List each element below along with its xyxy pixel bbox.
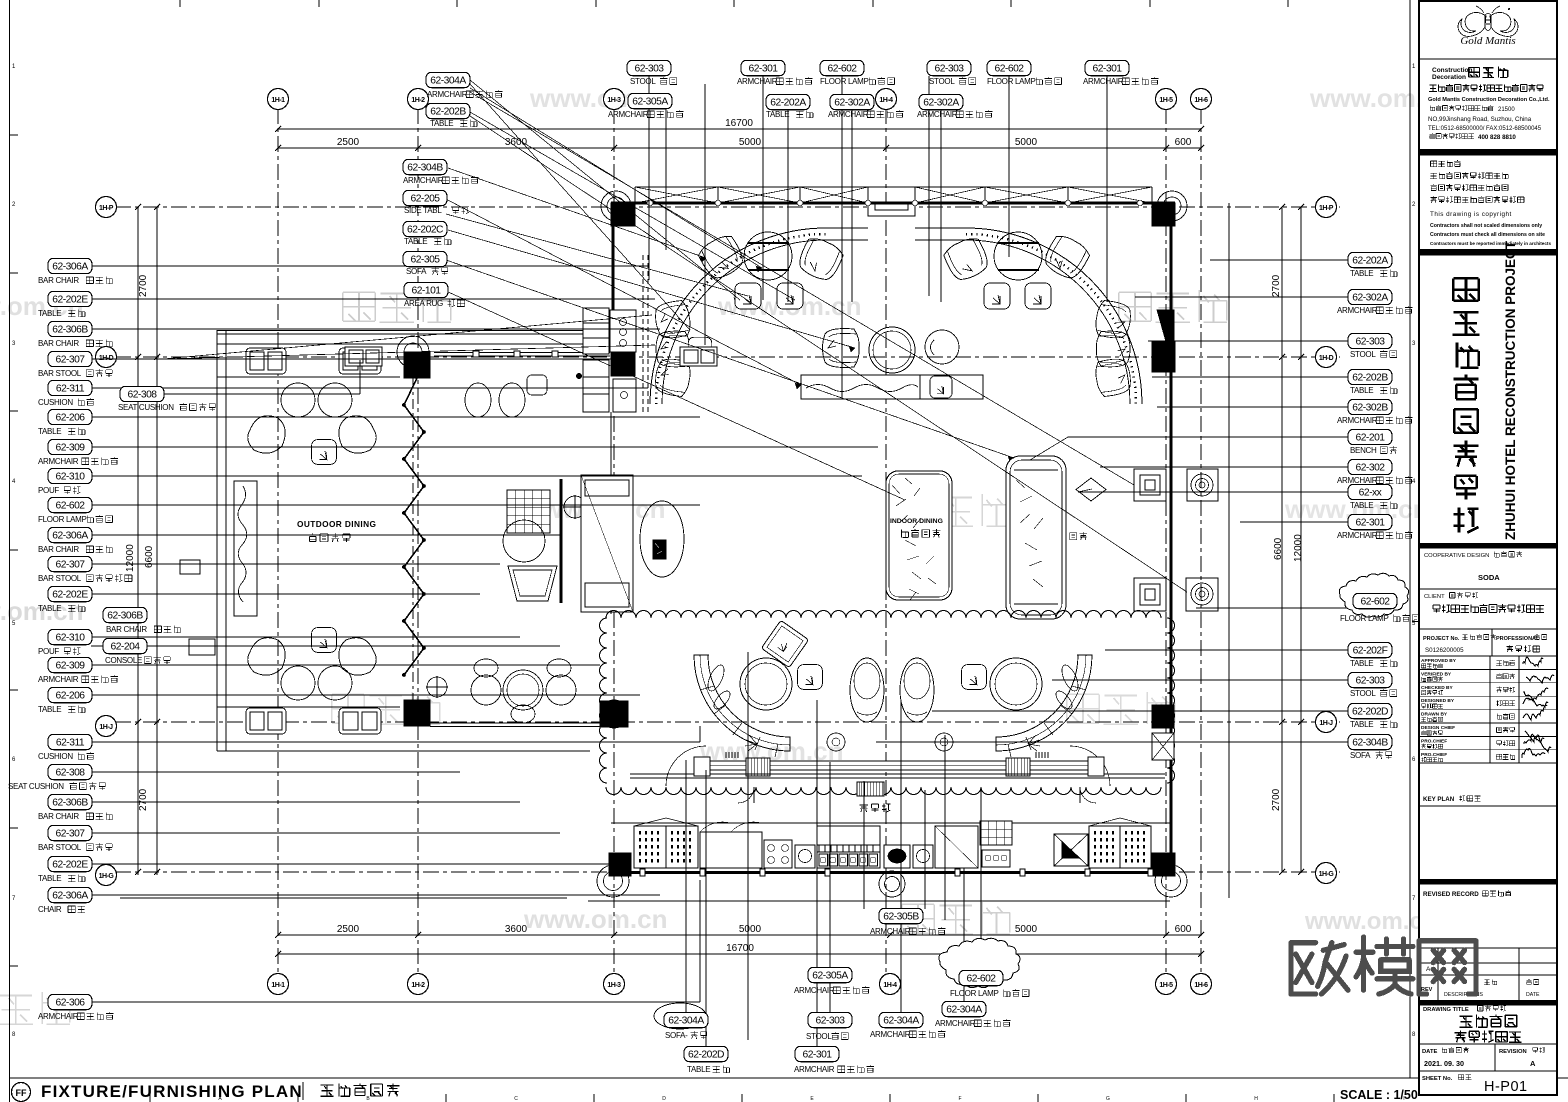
label 62-303 top b	[927, 60, 971, 75]
cloud border left	[600, 618, 608, 783]
svg-text:62-202E: 62-202E	[52, 295, 88, 306]
svg-text:62-602: 62-602	[994, 64, 1024, 75]
svg-text:62-301: 62-301	[802, 1050, 832, 1061]
cloud border bottom	[606, 787, 1161, 795]
svg-text:APPROVED BY: APPROVED BY	[1421, 658, 1457, 664]
outdoor sofa bottom-right	[339, 708, 381, 734]
curved sofa left	[694, 655, 790, 751]
cloud side table right	[935, 733, 953, 751]
svg-text:62-602: 62-602	[55, 501, 85, 512]
leader verticals from bottom labels	[829, 762, 831, 968]
svg-text:21500: 21500	[1498, 107, 1515, 113]
checker block	[980, 821, 1012, 845]
svg-text:DATE: DATE	[1422, 1049, 1437, 1055]
svg-text:FF: FF	[16, 1088, 27, 1098]
svg-text:62-304B: 62-304B	[1352, 738, 1388, 749]
svg-text:PROFESSIONAL: PROFESSIONAL	[1496, 636, 1540, 642]
svg-text:62-307: 62-307	[55, 560, 85, 571]
label 62-301 top a	[741, 60, 785, 75]
svg-text:ARMCHAIR: ARMCHAIR	[794, 986, 835, 995]
plan title chinese	[302, 1082, 304, 1100]
cloud border top	[606, 611, 1161, 619]
project no row	[1419, 628, 1557, 630]
svg-text:ARMCHAIR: ARMCHAIR	[403, 176, 444, 185]
counter comb right	[1036, 752, 1048, 758]
label 62-304A bottom mid	[879, 1012, 923, 1027]
svg-text:TABLE: TABLE	[1350, 386, 1373, 395]
svg-text:SOFA-: SOFA-	[665, 1031, 688, 1040]
svg-text:12000: 12000	[1293, 534, 1304, 562]
palm deco right	[1028, 735, 1040, 751]
svg-text:INDOOR DINING: INDOOR DINING	[890, 518, 943, 525]
piano bench trapezoid	[508, 566, 557, 601]
svg-text:1H-G: 1H-G	[1319, 871, 1335, 878]
svg-text:DATE: DATE	[1526, 992, 1540, 998]
svg-text:62-301: 62-301	[1355, 518, 1385, 529]
door swing pantry left	[738, 787, 754, 803]
svg-text:FLOOR LAMP: FLOOR LAMP	[987, 77, 1036, 86]
svg-text:A: A	[1530, 1059, 1536, 1068]
svg-text:BAR STOOL: BAR STOOL	[38, 369, 82, 378]
svg-text:DRAWING TITLE: DRAWING TITLE	[1423, 1007, 1469, 1013]
cloud oval chair right	[900, 658, 934, 722]
bar lower cabinet	[613, 379, 636, 412]
frame line right of plan	[1409, 0, 1411, 1078]
label 62-202B top-left	[426, 103, 470, 118]
black bar 2	[1419, 249, 1557, 255]
divider under logo	[1419, 58, 1557, 60]
ring grid2	[397, 336, 429, 368]
rotated stool cloud room	[761, 620, 808, 667]
svg-text:C: C	[514, 1096, 518, 1102]
svg-text:62-307: 62-307	[55, 829, 85, 840]
svg-text:1H-6: 1H-6	[1194, 982, 1208, 989]
svg-text:62-305A: 62-305A	[812, 971, 848, 982]
long bench 62-201	[1006, 456, 1066, 619]
svg-text:5000: 5000	[1015, 924, 1038, 935]
label 62-305A bottom	[808, 967, 852, 982]
black bar 4	[1419, 879, 1557, 884]
svg-text:600: 600	[1175, 924, 1192, 935]
svg-text:5000: 5000	[739, 924, 762, 935]
svg-text:COOPERATIVE DESIGN: COOPERATIVE DESIGN	[1424, 553, 1489, 559]
top edge ticks	[179, 0, 181, 7]
counter hatch block left	[746, 758, 770, 776]
corridor fixture circle top	[1187, 469, 1218, 501]
top overall dim 16700	[278, 128, 1201, 130]
svg-text:Construction: Construction	[1432, 67, 1472, 74]
svg-text:62-310: 62-310	[55, 633, 85, 644]
bottom trio chairs	[471, 675, 501, 705]
counter end caps	[694, 757, 710, 776]
svg-text:CLIENT: CLIENT	[1424, 594, 1445, 600]
svg-text:TABLE: TABLE	[38, 427, 61, 436]
svg-text:SHEET No.: SHEET No.	[1422, 1076, 1453, 1082]
svg-text:ARMCHAIR: ARMCHAIR	[38, 1012, 79, 1021]
counter lower lines full width	[630, 773, 1165, 775]
bottom drawing border	[10, 1077, 1568, 1079]
survey point outdoor	[427, 677, 447, 697]
revision cloud bottom 62-602	[939, 938, 1020, 987]
piano room upper line	[217, 343, 610, 345]
svg-text:DESIGN CHIEF: DESIGN CHIEF	[1421, 725, 1455, 731]
outdoor mid lines	[217, 376, 400, 378]
bottom segment dims	[278, 934, 1201, 936]
svg-text:62-602: 62-602	[827, 64, 857, 75]
door swing pantry right	[1080, 787, 1096, 803]
svg-text:ARMCHAIR: ARMCHAIR	[737, 77, 778, 86]
svg-text:www.om.cn: www.om.cn	[1304, 908, 1437, 935]
svg-text:2021. 09. 30: 2021. 09. 30	[1424, 1059, 1464, 1068]
svg-text:Gold Mantis: Gold Mantis	[1460, 35, 1515, 47]
svg-text:ARMCHAIR: ARMCHAIR	[608, 110, 649, 119]
sink small	[795, 845, 815, 868]
svg-text:62-602: 62-602	[1360, 597, 1390, 608]
site boundary line right	[1228, 203, 1230, 898]
svg-text:1H-P: 1H-P	[1319, 205, 1334, 212]
sofa right back cushions	[1008, 655, 1092, 757]
svg-text:62-202A: 62-202A	[1352, 256, 1388, 267]
svg-text:D: D	[662, 1096, 666, 1102]
svg-text:BAR CHAIR: BAR CHAIR	[38, 812, 79, 821]
column cloud right	[1152, 705, 1174, 728]
svg-text:400 828 8810: 400 828 8810	[1478, 134, 1516, 141]
outdoor tables top	[281, 383, 315, 417]
corner ring top-right	[1157, 191, 1187, 221]
armchair 62-304A upper left	[696, 232, 748, 283]
svg-text:TABLE: TABLE	[1350, 659, 1373, 668]
svg-text:62-304A: 62-304A	[668, 1016, 704, 1027]
stool pair left	[735, 283, 761, 309]
left border ticks	[10, 134, 19, 136]
label 62-303 bottom	[808, 1012, 852, 1027]
label 62-302A top a	[830, 94, 874, 109]
ring junction left mid	[600, 700, 628, 728]
svg-text:62-202D: 62-202D	[688, 1050, 724, 1061]
svg-text:Contractors must check all dim: Contractors must check all dimensions on…	[1430, 232, 1545, 238]
svg-text:G: G	[1106, 1096, 1110, 1102]
svg-text:H-P01: H-P01	[1484, 1079, 1528, 1095]
svg-text:ARMCHAIR: ARMCHAIR	[917, 110, 958, 119]
pantry hatch block	[857, 782, 884, 796]
svg-text:1H-3: 1H-3	[607, 97, 621, 104]
svg-text:TABLE: TABLE	[687, 1065, 710, 1074]
svg-text:62-201: 62-201	[1355, 433, 1385, 444]
window mullions and braces	[634, 187, 636, 203]
outdoor inner line	[225, 330, 227, 751]
svg-text:ARMCHAIR: ARMCHAIR	[38, 457, 79, 466]
center table	[869, 327, 915, 373]
black bar 3	[1419, 543, 1557, 548]
upper room top wall	[611, 201, 1175, 204]
svg-text:TABLE: TABLE	[38, 604, 61, 613]
stool pair right	[984, 283, 1010, 309]
svg-text:DESIGNED BY: DESIGNED BY	[1421, 698, 1455, 704]
side chairs left column	[653, 299, 692, 340]
svg-text:ARMCHAIR: ARMCHAIR	[1083, 77, 1124, 86]
sofa left back cushions	[694, 655, 778, 757]
counter hatch block right	[1006, 758, 1030, 776]
svg-text:A: A	[1426, 966, 1431, 973]
svg-text:F: F	[958, 1096, 961, 1102]
svg-text:TABLE: TABLE	[1350, 501, 1373, 510]
floor fixture sq top	[1134, 469, 1166, 501]
key plan divider	[1419, 805, 1557, 807]
corner column top-left	[611, 203, 635, 226]
outdoor sofa top-left	[246, 348, 286, 374]
svg-text:OUTDOOR DINING: OUTDOOR DINING	[297, 519, 376, 529]
svg-text:2700: 2700	[1271, 788, 1282, 811]
outdoor sofa top-right	[339, 348, 381, 374]
svg-text:ARMCHAIR: ARMCHAIR	[427, 90, 468, 99]
cloud side table left	[827, 733, 845, 751]
svg-text:6600: 6600	[144, 545, 155, 568]
label 62-202D bottom	[684, 1046, 728, 1061]
svg-text:REVISION: REVISION	[1499, 1049, 1527, 1055]
counter band	[700, 761, 1102, 770]
label 62-304A top-left	[426, 72, 470, 87]
svg-text:62-301: 62-301	[1092, 64, 1122, 75]
corridor fixture circle bottom	[1186, 578, 1218, 611]
left label column	[48, 258, 92, 273]
left wall lower thin	[610, 412, 612, 614]
svg-text:BENCH: BENCH	[1350, 446, 1377, 455]
svg-text:Decoration: Decoration	[1432, 74, 1466, 81]
svg-text:2700: 2700	[1271, 274, 1282, 297]
building bottom wall left wing	[430, 722, 611, 724]
watermark oumo outline row2	[343, 290, 451, 322]
floor fixture sq bottom	[1134, 578, 1166, 611]
grid bubbles left	[96, 197, 117, 218]
pantry label	[860, 803, 891, 812]
label 62-305B bottom	[879, 908, 923, 923]
column bottom-right	[1152, 853, 1175, 876]
grid bubbles bottom	[268, 974, 289, 995]
svg-text:62-302A: 62-302A	[923, 98, 959, 109]
fridge right	[1089, 826, 1151, 868]
FF sheet mark	[12, 1083, 31, 1102]
svg-text:62-202E: 62-202E	[52, 860, 88, 871]
logo gold mantis	[1458, 12, 1486, 36]
pantry top line	[611, 822, 1171, 824]
svg-text:62-205: 62-205	[410, 194, 440, 205]
svg-text:TEL:0512-68500000/ FAX:0512-68: TEL:0512-68500000/ FAX:0512-68500045	[1428, 126, 1542, 132]
svg-text:TABLE: TABLE	[430, 119, 453, 128]
big watermark oumowang	[1291, 943, 1348, 994]
company address cn	[1430, 105, 1493, 111]
svg-text:62-206: 62-206	[55, 413, 85, 424]
svg-text:62-307: 62-307	[55, 355, 85, 366]
svg-text:CUSHION: CUSHION	[38, 752, 73, 761]
svg-text:TABLE: TABLE	[404, 237, 427, 246]
svg-text:62-304A: 62-304A	[883, 1016, 919, 1027]
revision cloud right 62-602	[1339, 573, 1408, 617]
leader lines left lower elbows	[699, 726, 701, 742]
svg-text:62-602: 62-602	[966, 974, 996, 985]
svg-text:STOOL: STOOL	[1350, 689, 1376, 698]
svg-text:STOOL: STOOL	[806, 1032, 832, 1041]
label 62-302A top b	[919, 94, 963, 109]
svg-text:62-202D: 62-202D	[1352, 707, 1388, 718]
cloud stool left	[798, 665, 823, 690]
label 62-204 console	[103, 638, 147, 653]
svg-text:62-206: 62-206	[55, 691, 85, 702]
svg-text:62-306B: 62-306B	[52, 325, 88, 336]
banquette arc right	[966, 228, 1142, 404]
leader horizontals left lower	[91, 636, 520, 638]
column bottom-left	[609, 853, 631, 876]
label 62-303 top a	[627, 60, 671, 75]
black bar 5	[1419, 1000, 1557, 1005]
svg-text:ARMCHAIR: ARMCHAIR	[38, 675, 79, 684]
cloud table right	[990, 658, 1042, 710]
svg-text:SEAT CUSHION: SEAT CUSHION	[8, 782, 64, 791]
wall sill ticks	[640, 869, 645, 876]
svg-text:STOOL: STOOL	[1350, 350, 1376, 359]
svg-text:Gold Mantis Construction Decor: Gold Mantis Construction Decoration Co.,…	[1428, 97, 1550, 103]
svg-text:ZHUHUI HOTEL RECONSTRUCTION: ZHUHUI HOTEL RECONSTRUCTION PROJECT	[1503, 240, 1518, 540]
svg-text:FLOOR LAMP: FLOOR LAMP	[950, 989, 999, 998]
svg-text:AREA RUG: AREA RUG	[404, 299, 443, 308]
small circle unit	[913, 845, 933, 868]
svg-text:62-309: 62-309	[55, 661, 85, 672]
center chair right	[925, 330, 959, 364]
zigzag folding wall	[404, 378, 424, 675]
corner column top-right	[1152, 203, 1175, 226]
watermark row5 oumo	[902, 902, 1010, 934]
svg-text:TABLE: TABLE	[38, 874, 61, 883]
corner ring top-left	[601, 191, 631, 221]
bar back counter	[610, 310, 636, 352]
svg-text:PROJECT No.: PROJECT No.	[1423, 636, 1460, 642]
svg-text:BAR CHAIR: BAR CHAIR	[38, 339, 79, 348]
ring bottom-center	[879, 871, 905, 897]
grid bubbles top	[277, 89, 279, 108]
stage edge line	[560, 479, 563, 603]
column grid2 1H-D	[404, 352, 430, 378]
svg-text:62-303: 62-303	[634, 64, 664, 75]
label 62-304A bottom left oval	[654, 1003, 706, 1029]
knob row below checker	[982, 850, 1010, 867]
black bar 1	[1419, 149, 1557, 155]
sheet left border	[9, 0, 11, 1102]
svg-text:62-306B: 62-306B	[52, 798, 88, 809]
svg-text:1H-1: 1H-1	[271, 982, 285, 989]
label 62-306B mid	[103, 607, 147, 622]
column right wall mid	[1152, 342, 1175, 372]
svg-text:1H-2: 1H-2	[411, 982, 425, 989]
svg-text:1H-5: 1H-5	[1159, 97, 1173, 104]
side chairs right column	[1094, 299, 1133, 340]
approval table	[1419, 655, 1557, 657]
center armchair left	[823, 329, 860, 368]
svg-text:ARMCHAIR: ARMCHAIR	[935, 1019, 976, 1028]
svg-text:TABLE: TABLE	[1350, 720, 1373, 729]
svg-text:62-308: 62-308	[55, 768, 85, 779]
svg-text:62-202C: 62-202C	[407, 225, 444, 236]
column at bar	[611, 352, 635, 376]
banquette arc left	[650, 228, 826, 404]
svg-text:SEAT CUSHION: SEAT CUSHION	[118, 403, 174, 412]
area rug indoor dining	[886, 471, 952, 600]
svg-text:62-303: 62-303	[1355, 676, 1385, 687]
svg-text:STOOL: STOOL	[630, 77, 656, 86]
svg-text:NO,99Jinshang Road, Suzhou, Ch: NO,99Jinshang Road, Suzhou, China	[1428, 116, 1532, 123]
svg-text:62-304B: 62-304B	[407, 163, 443, 174]
client row	[1419, 588, 1557, 590]
leader horizontals right labels	[1210, 259, 1348, 261]
svg-text:1H-D: 1H-D	[1319, 355, 1334, 362]
corner ring bottom-right	[1155, 865, 1187, 897]
svg-text:TABLE: TABLE	[766, 110, 789, 119]
svg-text:62-202B: 62-202B	[430, 107, 466, 118]
svg-text:www.om.cn: www.om.cn	[523, 904, 668, 934]
leader verticals from top labels	[648, 76, 650, 280]
svg-text:CHAIR: CHAIR	[38, 905, 62, 914]
svg-text:62-306B: 62-306B	[107, 611, 143, 622]
labels stack left-top	[403, 159, 447, 174]
svg-text:3600: 3600	[505, 924, 528, 935]
outdoor stool bottom	[312, 628, 337, 653]
svg-text:62-304A: 62-304A	[430, 76, 466, 87]
svg-text:5000: 5000	[1015, 137, 1038, 148]
right wall	[1170, 203, 1173, 876]
label 62-202A top	[766, 94, 810, 109]
svg-text:ARMCHAIR: ARMCHAIR	[1337, 416, 1378, 425]
svg-text:1H-J: 1H-J	[99, 724, 113, 731]
svg-text:ARMCHAIR: ARMCHAIR	[828, 110, 869, 119]
sheet no row	[1419, 1070, 1557, 1072]
svg-text:1H-4: 1H-4	[879, 97, 893, 104]
svg-text:KEY PLAN: KEY PLAN	[1423, 796, 1455, 803]
svg-text:H: H	[1254, 1096, 1258, 1102]
svg-text:62-306A: 62-306A	[52, 262, 88, 273]
console table 62-204	[189, 639, 215, 655]
svg-text:62-310: 62-310	[55, 472, 85, 483]
oval rug	[640, 501, 684, 577]
svg-text:1H-G: 1H-G	[99, 873, 115, 880]
main unit text	[1070, 532, 1087, 540]
svg-text:BAR CHAIR: BAR CHAIR	[106, 625, 147, 634]
left wall upper segment	[612, 203, 615, 310]
svg-text:62-302A: 62-302A	[834, 98, 870, 109]
sliding door dashed band	[642, 255, 644, 412]
armchair right group b	[1040, 232, 1092, 283]
piano stool circle	[503, 520, 545, 562]
cloud stool right	[962, 665, 987, 690]
svg-text:BAR STOOL: BAR STOOL	[38, 574, 82, 583]
svg-text:TABLE: TABLE	[1350, 269, 1373, 278]
outdoor tables bottom	[281, 666, 315, 700]
black dot stage	[576, 373, 582, 379]
palm deco left	[745, 735, 757, 751]
sofa leaf left	[705, 663, 728, 693]
bottom overall dim 16700	[278, 953, 1201, 955]
svg-text:1H-3: 1H-3	[607, 982, 621, 989]
right dim lines	[1281, 207, 1283, 873]
svg-text:62-303: 62-303	[815, 1016, 845, 1027]
svg-text:PRO.CHIEF: PRO.CHIEF	[1421, 738, 1447, 744]
corner ring bottom-left	[597, 865, 629, 897]
label 62-602 top b	[987, 60, 1031, 75]
svg-text:FIXTURE/FURNISHING PLAN: FIXTURE/FURNISHING PLAN	[41, 1082, 303, 1101]
svg-text:2700: 2700	[138, 788, 149, 811]
svg-text:62-309: 62-309	[55, 443, 85, 454]
svg-text:62-302: 62-302	[1355, 463, 1385, 474]
svg-text:This drawing is copyright: This drawing is copyright	[1430, 211, 1512, 218]
counter mid	[935, 826, 978, 868]
outdoor fence top	[217, 330, 590, 332]
